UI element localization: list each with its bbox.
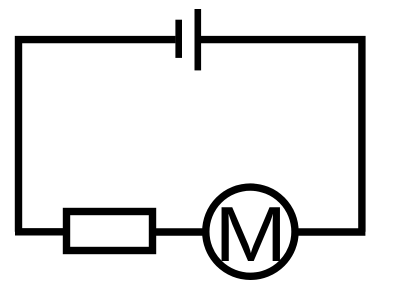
wire top-left segment and left vertical <box>19 40 176 232</box>
battery B1 positive plate <box>195 9 202 70</box>
motor M1 label M <box>214 190 287 278</box>
motor M1 body <box>206 187 295 276</box>
resistor R1 <box>67 212 153 251</box>
wire top-right segment and right vertical <box>201 40 362 232</box>
svg-text:M: M <box>214 190 287 278</box>
wire bottom-left segment <box>15 228 66 235</box>
wire motor to right vertical <box>295 228 365 235</box>
battery B1 negative plate <box>175 20 182 58</box>
wire resistor to motor <box>153 228 208 235</box>
